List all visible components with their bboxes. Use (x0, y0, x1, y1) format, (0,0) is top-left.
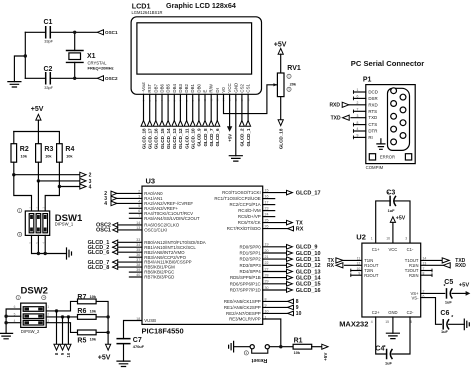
P1 DB9 shell (388, 88, 410, 150)
svg-text:RC6/TX/CK: RC6/TX/CK (238, 220, 261, 225)
svg-text:9: 9 (265, 303, 267, 307)
svg-text:GLCD_7: GLCD_7 (209, 128, 214, 147)
wire R4 to DSW1 (45, 187, 59, 212)
ground DSW1 (67, 248, 72, 259)
svg-text:4: 4 (371, 320, 373, 324)
wire net 3 (37, 162, 39, 181)
svg-text:R/W: R/W (209, 83, 214, 92)
wire LCD pin 9 (192, 94, 194, 120)
wire LCD pin 8 (186, 94, 188, 120)
wire OSC2 net (25, 77, 45, 79)
svg-text:R5: R5 (77, 338, 86, 345)
svg-text:6: 6 (138, 209, 140, 213)
terminal GLCD_13 (172, 121, 177, 127)
svg-text:GLCD_14: GLCD_14 (166, 128, 171, 149)
ground C6 (464, 319, 469, 330)
resistor R1 (293, 344, 312, 349)
wire VUSB to C7 (124, 321, 143, 339)
svg-text:FREQ=20MHz: FREQ=20MHz (88, 66, 114, 71)
power +5V (down arrow) (106, 344, 111, 350)
svg-text:RTS: RTS (368, 109, 377, 114)
terminal GLCD_11 (184, 121, 189, 127)
wire +5V bus (14, 132, 60, 144)
svg-text:RC4/D-/VM: RC4/D-/VM (238, 208, 261, 213)
wire LCD pin 2 (149, 94, 151, 120)
svg-text:+5V: +5V (396, 216, 406, 222)
wire net 9 down (62, 317, 64, 345)
svg-text:+5V: +5V (227, 134, 232, 142)
wire R5R6R7 to +5V (96, 301, 108, 344)
svg-text:DCD: DCD (368, 90, 378, 95)
node net9 junction (61, 315, 64, 318)
svg-text:GLCD_12: GLCD_12 (178, 128, 183, 149)
svg-text:37: 37 (136, 258, 140, 262)
svg-text:1: 1 (371, 237, 373, 241)
wire V0 to RV1 wiper (224, 85, 278, 114)
terminal net 3 (80, 178, 86, 183)
svg-text:U3: U3 (146, 177, 156, 186)
resistor R3 (36, 144, 42, 163)
terminal GLCD_15 (160, 121, 165, 127)
terminal GLCD_1 (246, 121, 251, 127)
wire reset to R1 (269, 346, 293, 348)
svg-text:20: 20 (265, 249, 269, 253)
svg-text:U2: U2 (356, 232, 366, 241)
svg-text:OSC1/CLKI: OSC1/CLKI (144, 228, 167, 233)
wire LCD pin 7 (179, 94, 181, 120)
wire R2 to DSW1 (14, 175, 32, 211)
svg-text:GLCD_11: GLCD_11 (296, 257, 320, 263)
svg-text:25: 25 (265, 219, 269, 223)
wire DSW1 to ground (32, 235, 67, 253)
svg-text:10k: 10k (90, 308, 97, 313)
svg-text:8: 8 (265, 297, 267, 301)
capacitor C2 (46, 73, 51, 84)
svg-text:22: 22 (265, 261, 269, 265)
node R2 junction (12, 173, 15, 176)
svg-text:RV1: RV1 (287, 65, 301, 72)
svg-text:DI: DI (215, 88, 220, 92)
svg-text:R7: R7 (77, 294, 86, 301)
terminal GLCD_12 (178, 121, 183, 127)
svg-text:RC7/RX/DT/SDO: RC7/RX/DT/SDO (227, 226, 261, 231)
svg-text:GLCD_17: GLCD_17 (148, 128, 153, 149)
terminal GLCD_7 (209, 121, 214, 127)
terminal GLCD_14 (166, 121, 171, 127)
svg-text:GLCD_16: GLCD_16 (154, 128, 159, 149)
svg-text:16: 16 (386, 237, 390, 241)
svg-text:RD6/SPP6/P1C: RD6/SPP6/P1C (230, 281, 261, 286)
svg-text:RD1/SPP1: RD1/SPP1 (239, 251, 261, 256)
svg-text:RXD: RXD (455, 263, 466, 269)
wire net 2 (13, 162, 15, 175)
svg-text:GLCD_8: GLCD_8 (203, 128, 208, 147)
node R3 junction (37, 179, 40, 182)
svg-text:RD4/SPP4: RD4/SPP4 (239, 269, 261, 274)
node R4 junction (58, 185, 61, 188)
svg-text:23: 23 (265, 207, 269, 211)
svg-text:RC0/T1OSO/T1CKI: RC0/T1OSO/T1CKI (222, 190, 261, 195)
svg-text:DB6: DB6 (160, 84, 165, 93)
svg-text:LGM12641BS1R: LGM12641BS1R (132, 10, 163, 15)
svg-text:R1: R1 (294, 338, 303, 345)
svg-text:C6: C6 (440, 310, 449, 317)
terminal OSC1 (97, 30, 103, 35)
svg-text:34: 34 (136, 243, 140, 247)
svg-text:33: 33 (136, 238, 140, 242)
svg-text:7: 7 (138, 214, 140, 218)
wire GND pin to ground (235, 94, 237, 155)
svg-text:DB1: DB1 (190, 84, 195, 93)
svg-text:RB7/KBI3/PGD: RB7/KBI3/PGD (144, 275, 174, 280)
wire net 4 (58, 162, 60, 186)
svg-text:*: * (444, 284, 446, 290)
svg-text:RC2/CCP1/P1A: RC2/CCP1/P1A (229, 202, 260, 207)
svg-text:GLCD_1: GLCD_1 (246, 128, 251, 147)
svg-text:LCD1: LCD1 (132, 1, 151, 10)
svg-text:C2+: C2+ (372, 310, 380, 315)
terminal net 10 (66, 344, 71, 350)
svg-text:28: 28 (265, 274, 269, 278)
svg-text:1uF: 1uF (388, 208, 396, 213)
svg-text:DB4: DB4 (172, 84, 177, 93)
resistor R5 (78, 330, 97, 335)
wire MCLR to reset (263, 319, 281, 347)
svg-text:ERROR: ERROR (380, 155, 395, 160)
svg-text:10k: 10k (90, 336, 97, 341)
svg-text:+5V: +5V (274, 41, 287, 48)
svg-text:C2-: C2- (407, 310, 414, 315)
terminal GLCD_9 (196, 121, 201, 127)
wire LCD pin 3 (155, 94, 157, 120)
svg-text:30: 30 (265, 286, 269, 290)
svg-text:DIPSW_1: DIPSW_1 (55, 222, 74, 227)
wire LCD pin 6 (173, 94, 175, 120)
svg-text:GLCD_16: GLCD_16 (296, 288, 321, 294)
svg-text:GLCD_18: GLCD_18 (279, 128, 284, 149)
svg-text:C1-: C1- (407, 247, 414, 252)
svg-text:40: 40 (136, 273, 140, 277)
ground U2 (386, 333, 399, 338)
svg-text:GLCD_11: GLCD_11 (184, 128, 189, 149)
svg-text:RXD: RXD (368, 102, 377, 107)
resistor R2 (11, 144, 17, 163)
svg-text:RE0/AN5/CK1SPP: RE0/AN5/CK1SPP (224, 299, 261, 304)
wire LCD pin 11 (204, 94, 206, 120)
node junction C2/X1 (73, 77, 76, 80)
svg-text:COMPIM: COMPIM (366, 165, 384, 170)
svg-text:GLCD_9: GLCD_9 (197, 128, 202, 147)
svg-text:V0: V0 (221, 87, 226, 93)
svg-text:OSC1: OSC1 (96, 228, 111, 234)
svg-text:10k: 10k (90, 294, 97, 299)
svg-text:27: 27 (265, 267, 269, 271)
terminal GLCD_16 (153, 121, 158, 127)
ground C7 (117, 361, 130, 366)
svg-text:+5V: +5V (459, 282, 470, 288)
terminal net 8 (54, 344, 59, 350)
svg-text:19: 19 (265, 243, 269, 247)
ground crystal section (8, 82, 21, 87)
terminal GLCD_17 (147, 121, 152, 127)
svg-text:10k: 10k (66, 154, 73, 159)
svg-text:RE1/AN6/CK2SPP: RE1/AN6/CK2SPP (224, 305, 261, 310)
svg-text:RE2/AN7/OESPP: RE2/AN7/OESPP (226, 311, 261, 316)
svg-text:P1: P1 (363, 76, 372, 83)
svg-text:OSC1: OSC1 (105, 30, 118, 35)
resistor R7 (78, 299, 97, 304)
wire OSC1 net top-left (25, 31, 45, 33)
node net8 junction (55, 309, 58, 312)
svg-text:OSC2: OSC2 (105, 76, 118, 81)
wire VCC pin to +5V (229, 94, 231, 126)
svg-text:RX: RX (296, 226, 304, 232)
svg-text:E: E (203, 90, 208, 93)
power +5V right of R1 (322, 344, 328, 349)
terminal GLCD_6 (215, 121, 220, 127)
svg-text:CTS: CTS (368, 122, 377, 127)
wire R3 to DSW1 (37, 181, 39, 211)
terminal GLCD_18 (141, 121, 146, 127)
wire LCD pin 13 (216, 94, 218, 120)
node junction C1/X1 (73, 31, 76, 34)
node net10 junction (67, 315, 70, 318)
svg-text:18: 18 (136, 317, 140, 321)
svg-text:CS1: CS1 (246, 84, 251, 93)
wire net 8 down (56, 311, 58, 345)
svg-text:RI: RI (368, 135, 372, 140)
svg-text:2: 2 (47, 312, 49, 316)
svg-text:15: 15 (385, 320, 389, 324)
svg-text:17: 17 (265, 201, 269, 205)
resistor R6 (78, 315, 97, 320)
wire LCD pin 10 (198, 94, 200, 120)
terminal GLCD_2 (239, 121, 244, 127)
U2 pin 15 GND wire (392, 317, 394, 333)
wire LCD pin 12 (210, 94, 212, 120)
svg-text:21: 21 (265, 255, 269, 259)
svg-text:29: 29 (265, 280, 269, 284)
svg-text:DB2: DB2 (184, 84, 189, 93)
svg-text:GLCD_6: GLCD_6 (88, 250, 110, 256)
svg-text:1uF: 1uF (385, 361, 393, 366)
svg-text:GLCD_10: GLCD_10 (296, 251, 321, 257)
svg-text:R4: R4 (65, 146, 74, 153)
svg-text:GLCD_8: GLCD_8 (88, 265, 110, 271)
svg-text:C5: C5 (444, 279, 453, 286)
svg-text:R6: R6 (77, 308, 86, 315)
ground LCD (229, 156, 242, 161)
wire C4 to C2- (392, 317, 410, 354)
svg-text:RC1/T1OSI/CCP2/UOE: RC1/T1OSI/CCP2/UOE (214, 196, 260, 201)
pin marker DSW1 pin6 (18, 232, 22, 236)
svg-text:VUSB: VUSB (144, 318, 156, 323)
svg-text:GLCD_2: GLCD_2 (240, 128, 245, 147)
svg-text:Reset: Reset (252, 357, 268, 363)
svg-text:DB3: DB3 (178, 84, 183, 93)
svg-text:RD3/SPP3: RD3/SPP3 (239, 263, 261, 268)
svg-text:2: 2 (89, 173, 92, 179)
potentiometer RV1 (277, 73, 284, 97)
wire C5 to +5V (452, 292, 466, 294)
svg-text:20k: 20k (290, 81, 297, 86)
wire CS2 (241, 94, 243, 120)
svg-text:TXD: TXD (331, 116, 341, 122)
svg-text:10k: 10k (294, 350, 301, 355)
svg-text:4: 4 (104, 201, 107, 207)
svg-text:4: 4 (89, 184, 92, 190)
svg-text:16: 16 (265, 195, 269, 199)
push button Reset (250, 345, 254, 349)
svg-text:DTR: DTR (368, 129, 377, 134)
svg-text:GLCD_15: GLCD_15 (296, 282, 321, 288)
svg-text:CS2: CS2 (239, 84, 244, 93)
svg-text:R2IN: R2IN (409, 273, 419, 278)
svg-text:10k: 10k (21, 154, 28, 159)
wire C2+ to C4 (376, 317, 387, 354)
terminal GLCD_8 (203, 121, 208, 127)
svg-text:RE3/MCLR/VPP: RE3/MCLR/VPP (229, 317, 261, 322)
svg-text:R3: R3 (44, 146, 53, 153)
svg-text:RD2/SPP2: RD2/SPP2 (239, 257, 261, 262)
svg-text:15: 15 (265, 189, 269, 193)
resistor R4 (57, 144, 63, 163)
svg-text:X1: X1 (87, 53, 96, 60)
wire C3 to U2 (376, 201, 390, 243)
svg-text:DB0: DB0 (196, 84, 201, 93)
svg-text:3: 3 (405, 237, 407, 241)
display LCD1 body (131, 17, 261, 95)
svg-text:36: 36 (136, 253, 140, 257)
svg-text:GLCD_6: GLCD_6 (215, 128, 220, 147)
ground reset (229, 341, 234, 352)
svg-text:1uF: 1uF (441, 329, 449, 334)
wire C6 to ground (449, 323, 465, 325)
power +5V right (filled) (466, 291, 471, 296)
svg-text:24: 24 (265, 213, 269, 217)
P1 DB9 pin circles (391, 88, 397, 94)
terminal OSC2 (97, 76, 103, 81)
svg-text:RXD: RXD (329, 103, 340, 109)
svg-text:DB7: DB7 (153, 84, 158, 93)
capacitor C1 (46, 27, 51, 38)
capacitor C7 (117, 339, 130, 344)
svg-text:PIC18F4550: PIC18F4550 (142, 326, 184, 335)
svg-text:26: 26 (265, 225, 269, 229)
wire CS1 (247, 94, 249, 120)
svg-text:470uF: 470uF (133, 344, 145, 349)
svg-text:*: * (384, 345, 386, 351)
svg-text:1: 1 (47, 305, 49, 309)
wire VS- to C6 (421, 298, 442, 325)
svg-text:GLCD_12: GLCD_12 (296, 263, 321, 269)
dip switch DSW1 (25, 211, 49, 235)
svg-text:10: 10 (296, 311, 302, 317)
svg-text:DB5: DB5 (166, 84, 171, 93)
svg-text:VS-: VS- (412, 296, 420, 301)
wire DSW2 pin2 to R6 (46, 316, 77, 318)
wire reset left (234, 346, 251, 348)
power +5V LCD (filled) (227, 126, 232, 131)
terminal GLCD_18 RV1 (278, 120, 283, 126)
svg-text:RC5/D+/VP: RC5/D+/VP (238, 214, 261, 219)
svg-text:GLCD_14: GLCD_14 (296, 275, 322, 281)
terminal net 4 (80, 184, 86, 189)
svg-text:VCC: VCC (227, 83, 232, 92)
svg-text:5: 5 (138, 204, 140, 208)
svg-text:RX: RX (327, 263, 335, 269)
svg-text:GLCD_13: GLCD_13 (172, 128, 177, 149)
wire DSW2 pin3 to R5 (46, 323, 77, 333)
svg-text:38: 38 (136, 263, 140, 267)
svg-text:C1+: C1+ (372, 247, 380, 252)
ground DSW2 (0, 333, 13, 338)
wire DSW2 pin1 to R7 (46, 301, 77, 311)
svg-text:VCC: VCC (388, 247, 397, 252)
svg-text:*: * (451, 315, 453, 321)
svg-text:+5V: +5V (323, 352, 328, 361)
svg-text:3: 3 (138, 194, 140, 198)
svg-text:+5V: +5V (98, 354, 111, 361)
svg-text:4: 4 (138, 199, 140, 203)
svg-text:+5V: +5V (31, 106, 44, 113)
svg-text:*: * (387, 192, 389, 198)
terminal net 2 (80, 172, 86, 177)
svg-text:13: 13 (136, 226, 140, 230)
wire net 10 down (67, 317, 69, 345)
crystal X1 (74, 32, 76, 50)
svg-text:R2: R2 (20, 146, 29, 153)
svg-text:39: 39 (136, 268, 140, 272)
svg-text:GLCD_13: GLCD_13 (296, 269, 321, 275)
svg-text:GLCD_15: GLCD_15 (160, 128, 165, 149)
svg-text:DSR: DSR (368, 96, 377, 101)
svg-text:1uF: 1uF (445, 300, 453, 305)
svg-text:RST: RST (147, 84, 152, 93)
svg-text:10: 10 (66, 352, 71, 357)
svg-text:GND: GND (233, 83, 238, 93)
wire R1 to +5V (312, 346, 322, 348)
svg-text:10k: 10k (45, 154, 52, 159)
wire RV1 bottom (280, 97, 282, 120)
wire C7 to ground (123, 344, 125, 362)
svg-text:C1: C1 (44, 19, 53, 26)
wire DSW2 left pins to ground (6, 309, 21, 333)
svg-text:RA5/AN4/SS/LVDIN/C2OUT: RA5/AN4/SS/LVDIN/C2OUT (144, 216, 200, 221)
svg-text:Graphic LCD 128x64: Graphic LCD 128x64 (166, 1, 236, 10)
svg-text:33pF: 33pF (44, 39, 53, 44)
terminal GLCD_10 (190, 121, 195, 127)
wire to ground (24, 32, 26, 78)
svg-text:33pF: 33pF (44, 85, 53, 90)
svg-text:2: 2 (138, 189, 140, 193)
wire LCD pin 1 (143, 94, 145, 120)
svg-text:GND: GND (388, 310, 397, 315)
P1 error indicators (369, 154, 375, 160)
svg-text:PC Serial Connector: PC Serial Connector (351, 59, 424, 68)
wire VS+ to C5 (421, 292, 445, 294)
svg-text:DIPSW_2: DIPSW_2 (21, 329, 40, 334)
P1 shell ground (380, 139, 382, 144)
svg-text:R2OUT: R2OUT (364, 273, 379, 278)
svg-text:RD7/SPP7/P1D: RD7/SPP7/P1D (230, 288, 261, 293)
terminal net 9 (60, 344, 65, 350)
svg-text:GLCD_10: GLCD_10 (191, 128, 196, 149)
svg-text:GLCD_9: GLCD_9 (296, 245, 318, 251)
svg-text:10: 10 (265, 309, 269, 313)
svg-text:14: 14 (136, 221, 140, 225)
svg-text:RD0/SPP0: RD0/SPP0 (239, 244, 261, 249)
